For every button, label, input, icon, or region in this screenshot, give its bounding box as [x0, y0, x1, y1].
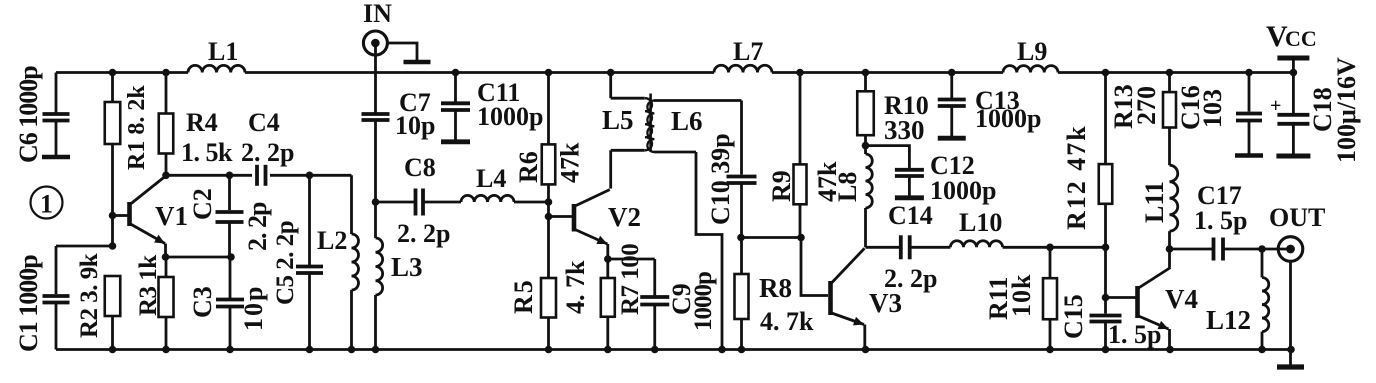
svg-text:C14: C14	[888, 201, 933, 230]
svg-text:R7 100: R7 100	[617, 244, 644, 315]
svg-text:L9: L9	[1017, 37, 1047, 66]
svg-text:IN: IN	[363, 0, 392, 28]
svg-text:L6: L6	[671, 106, 703, 136]
svg-text:1. 5p: 1. 5p	[1194, 206, 1247, 235]
svg-text:L8: L8	[833, 172, 862, 202]
svg-text:2. 2p: 2. 2p	[243, 202, 272, 251]
svg-text:2. 2p: 2. 2p	[397, 219, 450, 248]
svg-text:L2: L2	[317, 226, 347, 255]
svg-text:R9: R9	[767, 170, 796, 202]
svg-text:OUT: OUT	[1269, 203, 1325, 232]
svg-text:1. 5p: 1. 5p	[1108, 320, 1161, 349]
svg-text:L12: L12	[1206, 305, 1251, 335]
svg-text:CC: CC	[1285, 26, 1317, 51]
svg-text:R3 1k: R3 1k	[135, 255, 162, 316]
svg-text:L7: L7	[733, 37, 763, 66]
svg-text:V1: V1	[155, 201, 188, 231]
svg-text:R1 8. 2k: R1 8. 2k	[124, 85, 150, 170]
svg-text:R8: R8	[759, 273, 792, 303]
svg-text:330: 330	[884, 115, 925, 145]
svg-text:R12 47k: R12 47k	[1062, 124, 1091, 230]
svg-text:R5: R5	[509, 278, 538, 314]
svg-text:R2 3. 9k: R2 3. 9k	[76, 253, 103, 338]
svg-text:L1: L1	[208, 37, 238, 66]
svg-text:V4: V4	[1165, 284, 1198, 314]
svg-text:10p: 10p	[395, 111, 435, 140]
svg-text:C8: C8	[404, 153, 436, 182]
svg-text:C6 1000p: C6 1000p	[14, 66, 43, 163]
svg-text:4. 7k: 4. 7k	[561, 260, 590, 314]
svg-text:4. 7k: 4. 7k	[760, 307, 814, 336]
svg-text:C2: C2	[188, 188, 217, 220]
svg-text:1. 5k: 1. 5k	[181, 138, 233, 167]
svg-text:103: 103	[1198, 89, 1227, 128]
svg-text:1000p: 1000p	[477, 102, 543, 131]
svg-text:1000p: 1000p	[930, 176, 996, 205]
svg-text:1000p: 1000p	[975, 104, 1041, 133]
svg-text:1000p: 1000p	[690, 272, 717, 331]
svg-text:R6: R6	[514, 151, 543, 183]
svg-text:L11: L11	[1140, 181, 1169, 223]
svg-text:2. 2p: 2. 2p	[884, 264, 937, 293]
svg-text:47k: 47k	[556, 142, 585, 183]
svg-text:C1 1000p: C1 1000p	[14, 255, 43, 352]
svg-text:1: 1	[40, 190, 53, 219]
svg-text:V2: V2	[608, 202, 641, 232]
svg-text:C3: C3	[188, 286, 217, 318]
svg-text:100μ/16V: 100μ/16V	[1332, 57, 1361, 163]
svg-text:L3: L3	[391, 252, 423, 282]
svg-text:270: 270	[1132, 86, 1161, 125]
svg-text:C15: C15	[1059, 294, 1088, 339]
svg-text:L10: L10	[959, 208, 1002, 237]
svg-text:L5: L5	[602, 105, 634, 135]
svg-text:10k: 10k	[1007, 274, 1036, 317]
svg-text:10p: 10p	[239, 285, 268, 331]
svg-text:R4: R4	[186, 108, 218, 137]
svg-text:C10 39p: C10 39p	[706, 133, 735, 225]
svg-text:C4: C4	[248, 108, 280, 137]
svg-text:C5 2. 2p: C5 2. 2p	[272, 221, 299, 305]
svg-text:2. 2p: 2. 2p	[241, 138, 294, 167]
svg-text:L4: L4	[476, 164, 506, 193]
